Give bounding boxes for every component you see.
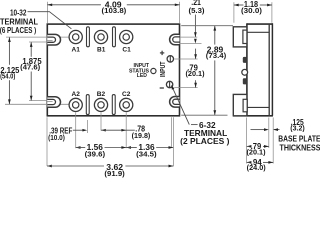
svg-text:(54.0): (54.0): [0, 74, 15, 81]
terminal B2: [94, 98, 107, 111]
ext line body left edge up: [46, 2, 48, 23]
ext line - terminal: [174, 87, 197, 89]
dim .79 line l: [247, 145, 250, 147]
svg-text:.21: .21: [191, 0, 201, 7]
dim 2.89 arrow up: [213, 26, 216, 31]
dim 4.09 line right: [127, 4, 180, 6]
ext line base front down: [268, 118, 270, 149]
side view front face: [246, 23, 248, 116]
ext centerline bottom slot to A2: [5, 103, 70, 105]
projection line bottom edge: [181, 114, 227, 116]
centerline inside top-left slot: [47, 40, 53, 42]
barrier slot row2 A-B: [86, 95, 89, 115]
side view bottom terminal screw: [243, 99, 247, 112]
dim 3.62 line right: [125, 165, 173, 167]
side view top terminal block: [233, 27, 247, 47]
dim .79 arrow right: [264, 145, 269, 148]
dim .21 arrow upper: [194, 32, 197, 37]
ext centerline top slot to A1: [6, 36, 69, 38]
dim .79 arrow upper: [194, 54, 197, 59]
ext line input terminal down: [170, 117, 172, 148]
dim .94 line l: [247, 161, 250, 163]
barrier slot row1 B-C: [113, 27, 116, 47]
ext line base back up: [271, 2, 273, 23]
side view bottom terminal block: [233, 94, 247, 115]
mounting slot top-right: [170, 34, 180, 45]
svg-text:C2: C2: [122, 91, 131, 98]
dim 1.56 line left: [76, 147, 86, 149]
dim 3.62 arrow left: [47, 165, 52, 168]
dim 1.56 arrow left: [76, 146, 81, 149]
svg-text:(20.1): (20.1): [247, 150, 266, 157]
dim .39 REF arrow: [82, 129, 87, 132]
dim 3.62 arrow right: [169, 165, 174, 168]
dim 1.875 line lower: [30, 72, 32, 101]
svg-text:(2 PLACES ): (2 PLACES ): [180, 136, 229, 146]
svg-text:BASE PLATE: BASE PLATE: [278, 135, 320, 144]
svg-text:(5.3): (5.3): [189, 8, 205, 15]
ext line slot upper edge: [181, 36, 198, 38]
dim 1.56 line right: [105, 147, 127, 149]
input terminal + screw: [167, 56, 173, 62]
svg-text:10-32: 10-32: [10, 9, 27, 18]
dim .21 arrow lower: [194, 39, 197, 44]
dim 1.875 arrow down: [30, 96, 33, 101]
base plate front line: [268, 24, 270, 116]
mounting slot top-left: [47, 34, 60, 45]
note 6-32 dash: [191, 124, 198, 126]
svg-text:(30.0): (30.0): [241, 8, 262, 15]
dim 4.09 arrow right: [175, 3, 180, 6]
leader 10-32: [28, 12, 72, 29]
barrier slot row2 B-C: [112, 95, 115, 115]
dim 4.09 line left: [47, 4, 101, 6]
ext line body right edge up: [179, 2, 181, 23]
side view top edge: [247, 23, 273, 25]
dim .39 REF line: [73, 129, 85, 131]
ext line base back down: [272, 118, 274, 164]
leader 6-32: [173, 88, 190, 125]
svg-text:A1: A1: [72, 46, 81, 53]
ext line housing face down: [246, 118, 248, 164]
centerline barrier mid down: [87, 120, 89, 133]
dim 2.125 line upper: [8, 37, 10, 65]
svg-text:INPUT: INPUT: [160, 61, 167, 77]
terminal B1: [94, 30, 107, 43]
ext line slot lower edge: [181, 43, 202, 45]
ext line side front up: [233, 2, 235, 23]
svg-text:A2: A2: [72, 91, 81, 98]
dim .79 arrow left: [247, 145, 252, 148]
dim 1.18 line right: [260, 4, 272, 6]
base plate back line: [271, 23, 273, 116]
ext line top slot lower edge: [29, 41, 54, 43]
input status LED circle: [151, 68, 156, 73]
dim .78 arrow right: [121, 129, 126, 132]
side view top terminal screw: [243, 30, 247, 43]
dim .125 arrow right-point: [264, 128, 269, 131]
terminal C2: [120, 98, 133, 111]
svg-text:(103.8): (103.8): [102, 8, 127, 15]
side view input terminal tab +: [243, 57, 247, 63]
svg-text:(73.4): (73.4): [206, 53, 226, 60]
side view input terminal tab -: [243, 78, 247, 84]
svg-text:(3.2): (3.2): [290, 126, 304, 133]
dim 4.09 arrow left: [47, 3, 52, 6]
dim 1.36 arrow left2: [126, 146, 131, 149]
svg-text:LED: LED: [137, 73, 147, 79]
svg-text:(24.0): (24.0): [247, 165, 266, 172]
svg-text:B1: B1: [97, 46, 106, 53]
centerline A2 down: [75, 112, 77, 148]
dim 1.18 arrow left: [234, 4, 239, 7]
side view upper step line: [247, 31, 269, 33]
dim .79 line lower: [195, 80, 197, 87]
side view bottom edge: [233, 115, 273, 117]
barrier slot row1 A-B: [87, 27, 90, 47]
ext line body left edge down: [46, 117, 48, 166]
dim 2.89 arrow down: [213, 110, 216, 115]
dim 1.875 arrow up: [30, 42, 33, 47]
input terminal - screw: [166, 81, 172, 87]
terminal A1: [69, 30, 82, 43]
dim .125 line right: [274, 129, 280, 131]
dim 2.125 arrow down: [8, 99, 11, 104]
svg-text:(34.5): (34.5): [136, 152, 156, 159]
mounting slot bottom-right: [170, 97, 180, 108]
dim .21 line: [194, 15, 196, 37]
svg-text:B2: B2: [97, 91, 106, 98]
dim 2.89 line upper: [214, 26, 216, 45]
dim .79 line upper: [195, 49, 197, 59]
svg-text:(20.1): (20.1): [186, 71, 205, 78]
dim .78 arrow left: [101, 129, 106, 132]
svg-text:(19.8): (19.8): [132, 133, 151, 140]
terminal A2: [69, 98, 82, 111]
dim 1.18 line left: [234, 4, 244, 6]
dim .125 line left: [251, 129, 267, 131]
svg-text:(10.0): (10.0): [48, 135, 65, 142]
svg-text:C1: C1: [122, 46, 131, 53]
dim 1.875 line upper: [30, 42, 32, 57]
side view lower step line: [247, 106, 269, 108]
svg-text:.39 REF: .39 REF: [49, 126, 72, 135]
dim .78 line: [101, 129, 135, 131]
dim 2.125 line lower: [8, 80, 10, 104]
dim .94 line r: [263, 161, 273, 163]
dim 3.62 line left: [47, 165, 104, 167]
dim 1.36 line left: [126, 147, 137, 149]
side view LED dome: [242, 69, 248, 75]
dim .79 line r: [263, 145, 269, 147]
dim .125 arrow left-point: [273, 128, 278, 131]
plus sign: [160, 52, 164, 54]
dim .79 arrow lower: [194, 83, 197, 88]
ext line + terminal: [174, 58, 197, 60]
dim .94 arrow right: [268, 161, 273, 164]
ext line bottom slot upper edge: [29, 100, 54, 102]
svg-text:(6 PLACES ): (6 PLACES ): [0, 26, 36, 35]
dim 2.125 arrow up: [8, 37, 11, 42]
svg-text:(91.9): (91.9): [104, 171, 124, 178]
centerline C2 down: [125, 112, 127, 148]
dim 1.36 line right: [156, 147, 173, 149]
centerline inside bottom-left slot: [47, 101, 53, 103]
dim 1.36 arrow right: [169, 146, 174, 149]
centerline B2 down: [100, 112, 102, 130]
relay body outline (front view): [47, 24, 179, 116]
mounting slot bottom-left: [47, 97, 60, 108]
svg-text:(47.6): (47.6): [20, 65, 40, 72]
projection line top edge: [181, 25, 233, 27]
svg-text:(39.6): (39.6): [85, 151, 105, 158]
dim 2.89 line lower: [214, 60, 216, 115]
dim .94 arrow left: [247, 161, 252, 164]
svg-text:THICKNESS: THICKNESS: [280, 144, 320, 153]
dim 1.18 arrow right: [267, 4, 272, 7]
terminal C1: [120, 30, 133, 43]
minus sign: [160, 87, 164, 89]
dim 1.56 arrow right: [121, 146, 126, 149]
ext line right slot center down: [172, 117, 174, 166]
